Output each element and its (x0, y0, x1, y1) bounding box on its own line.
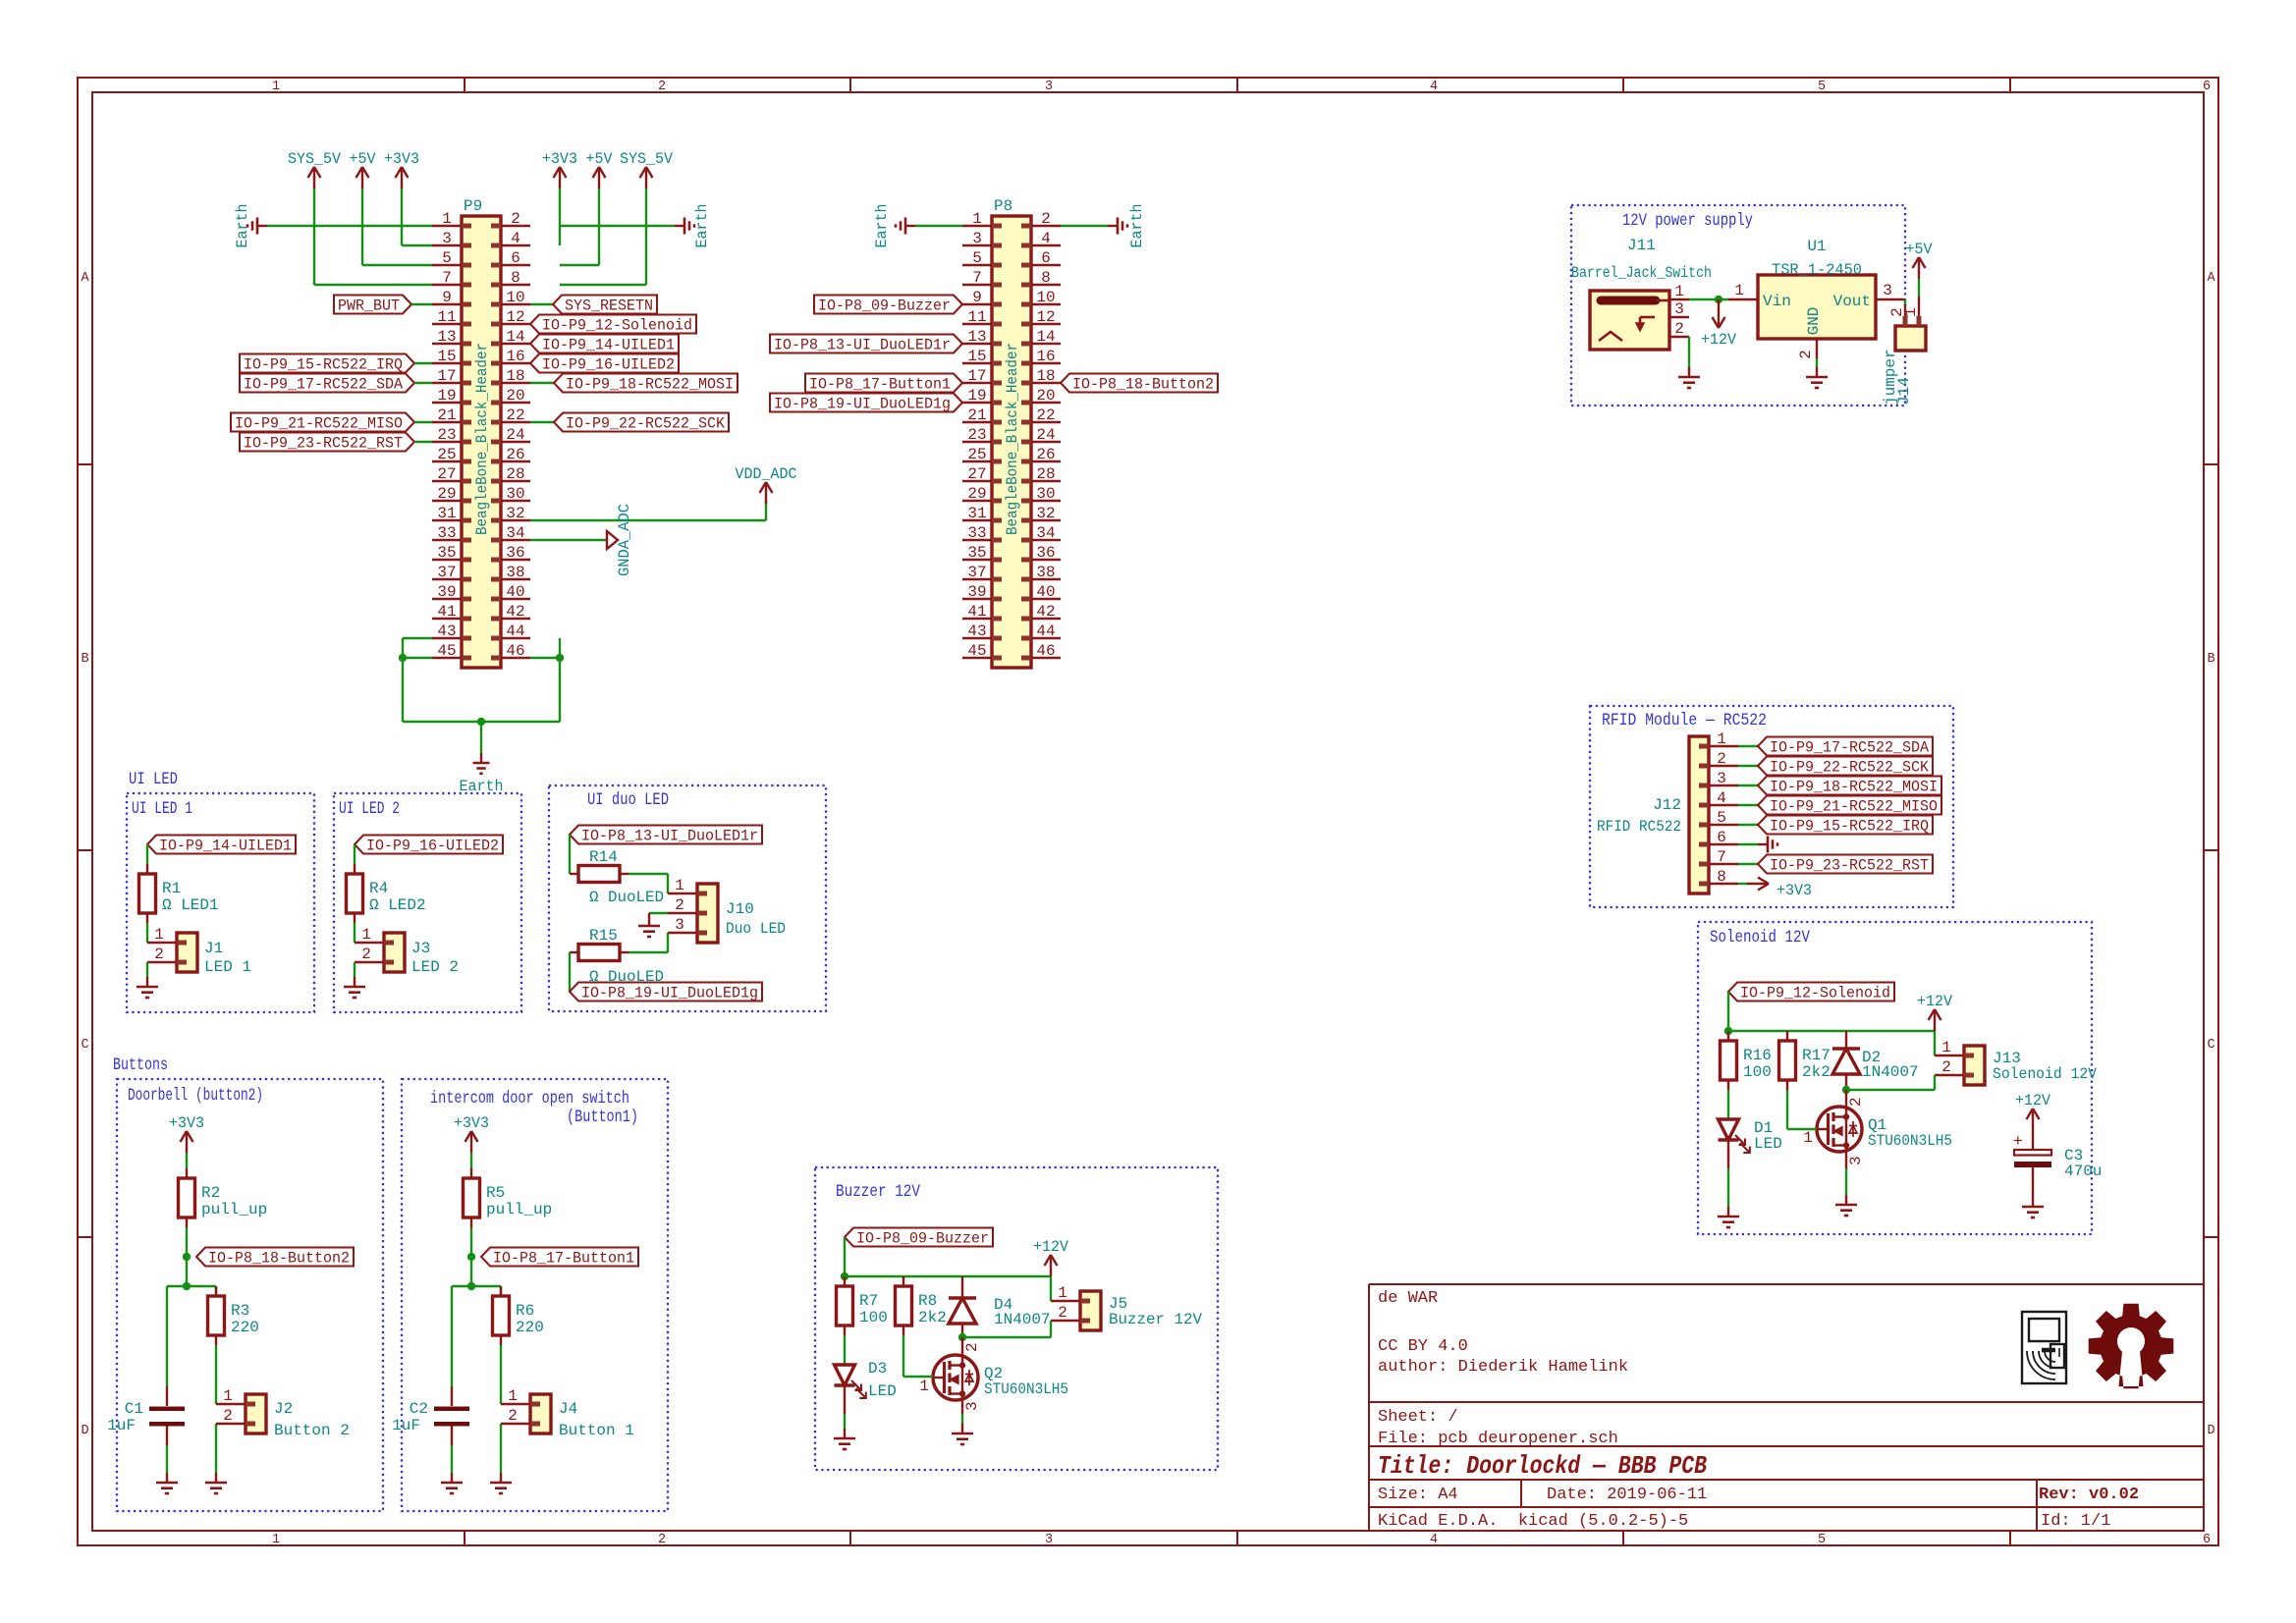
U1 pin 2 GND (1816, 339, 1818, 358)
P8 pin 4 (1031, 244, 1061, 246)
P9 pin 21 (432, 421, 462, 423)
logo door with RFID waves (2022, 1312, 2066, 1383)
P9 pin 33 (432, 539, 462, 541)
svg-text:R15: R15 (589, 927, 618, 945)
power Earth P9 pin1 (257, 225, 267, 227)
wire (915, 225, 962, 227)
wire (645, 189, 647, 285)
svg-text:1uF: 1uF (392, 1417, 420, 1434)
P8 pin 26 (1031, 460, 1061, 462)
resistor R16 (1727, 1031, 1729, 1041)
svg-text:SYS_5V: SYS_5V (620, 150, 674, 168)
svg-text:38: 38 (506, 564, 524, 581)
wire (530, 382, 554, 384)
junction (467, 1282, 475, 1290)
svg-text:VDD_ADC: VDD_ADC (736, 465, 797, 483)
wire Q2 gate (903, 1376, 933, 1378)
svg-text:3: 3 (442, 230, 452, 247)
P9 pin 2 (501, 225, 530, 227)
svg-text:1: 1 (919, 1378, 929, 1395)
wire (1050, 1321, 1052, 1337)
svg-text:24: 24 (506, 426, 524, 444)
diode D3 LED (835, 1365, 855, 1385)
P9 pin 12 (501, 323, 530, 325)
svg-text:C: C (2207, 1038, 2214, 1053)
svg-text:D3: D3 (868, 1360, 887, 1378)
power +3V3 left (401, 167, 403, 189)
wire (649, 912, 668, 914)
svg-text:R7: R7 (859, 1292, 878, 1310)
svg-text:2: 2 (361, 946, 371, 963)
svg-text:7: 7 (1717, 848, 1726, 866)
ground (1845, 1195, 1847, 1205)
P8 pin 43 (962, 637, 992, 639)
svg-text:1: 1 (1717, 730, 1726, 748)
svg-text:37: 37 (967, 564, 986, 581)
wire (146, 844, 148, 864)
ground (844, 1429, 846, 1438)
section box RFID Module - RC522 (1590, 706, 1953, 907)
J12 pin 3 (1709, 784, 1738, 786)
svg-text:U1: U1 (1807, 238, 1826, 255)
svg-text:30: 30 (506, 485, 524, 503)
svg-text:39: 39 (437, 583, 456, 601)
resistor R15 (570, 951, 578, 953)
wire (500, 1424, 502, 1473)
svg-text:3: 3 (1883, 282, 1892, 299)
P9 pin 15 (432, 362, 462, 364)
svg-text:23: 23 (967, 426, 986, 444)
svg-text:+12V: +12V (1701, 331, 1737, 349)
svg-text:1uF: 1uF (107, 1417, 136, 1434)
connector J1 LED 1 (177, 933, 197, 972)
P9 pin 7 (432, 284, 462, 286)
wire (1050, 1276, 1052, 1301)
svg-text:220: 220 (231, 1319, 259, 1336)
svg-text:1: 1 (1941, 1039, 1951, 1056)
wire GNDA_ADC (530, 539, 607, 541)
svg-text:Buzzer 12V: Buzzer 12V (1109, 1311, 1202, 1328)
svg-text:PWR_BUT: PWR_BUT (338, 298, 400, 315)
power VDD_ADC (765, 482, 767, 504)
svg-text:14: 14 (1036, 328, 1055, 346)
P9 pin 44 (501, 637, 530, 639)
svg-text:2: 2 (1941, 1058, 1951, 1076)
svg-text:File: pcb deuropener.sch: File: pcb deuropener.sch (1378, 1430, 1618, 1448)
svg-text:IO-P8_09-Buzzer: IO-P8_09-Buzzer (818, 298, 951, 315)
junction (1724, 1027, 1732, 1035)
svg-text:IO-P9_16-UILED2: IO-P9_16-UILED2 (542, 356, 675, 374)
wire (1738, 784, 1758, 786)
label IO-P9_22-RC522_SCK (554, 413, 729, 432)
label IO-P9_16-UILED2 (530, 354, 679, 373)
svg-text:A: A (2207, 271, 2215, 286)
svg-text:5: 5 (972, 249, 982, 267)
svg-text:1: 1 (272, 80, 280, 94)
svg-text:25: 25 (437, 446, 456, 463)
U1 pin 3 Vout (1876, 298, 1905, 300)
resistor R1 (146, 864, 148, 874)
svg-text:26: 26 (1036, 446, 1055, 463)
wire (667, 933, 669, 952)
svg-text:2: 2 (1797, 350, 1815, 359)
label IO-P9_17-RC522_SDA (1758, 737, 1933, 756)
svg-text:IO-P9_17-RC522_SDA: IO-P9_17-RC522_SDA (1770, 739, 1930, 757)
svg-text:220: 220 (516, 1319, 544, 1336)
svg-text:2: 2 (658, 80, 666, 94)
svg-text:23: 23 (437, 426, 456, 444)
P9 pin 27 (432, 480, 462, 482)
svg-text:3: 3 (972, 230, 982, 247)
svg-text:26: 26 (506, 446, 524, 463)
svg-text:+12V: +12V (2015, 1092, 2051, 1109)
label PWR_BUT (334, 296, 411, 314)
P9 pin 30 (501, 500, 530, 502)
svg-text:IO-P8_17-Button1: IO-P8_17-Button1 (493, 1250, 634, 1268)
wire (1934, 1031, 1936, 1055)
ground (146, 977, 148, 987)
svg-text:2k2: 2k2 (918, 1309, 947, 1326)
wire (1728, 1030, 1935, 1032)
connector J13 Solenoid 12V (1964, 1046, 1985, 1085)
wire (1738, 843, 1758, 845)
wire (215, 1345, 217, 1404)
svg-text:Solenoid 12V: Solenoid 12V (1993, 1065, 2097, 1083)
junction (958, 1333, 966, 1341)
svg-text:LED: LED (1754, 1135, 1782, 1153)
wire (166, 1286, 168, 1386)
connector J12 RFID RC522 (1689, 736, 1709, 893)
connector J3 LED 2 (384, 933, 405, 972)
svg-text:36: 36 (1036, 544, 1055, 562)
svg-text:31: 31 (437, 505, 456, 522)
P9 pin 16 (501, 362, 530, 364)
title block frame (1369, 1283, 2204, 1285)
svg-text:BeagleBone_Black_Header: BeagleBone_Black_Header (473, 343, 491, 535)
P9 pin 32 (501, 519, 530, 521)
P9 pin 29 (432, 500, 462, 502)
svg-text:2: 2 (963, 1342, 981, 1352)
wire (1738, 745, 1758, 747)
ground (354, 977, 355, 987)
ground (648, 913, 650, 926)
P9 pin 43 (432, 637, 462, 639)
wire (452, 1285, 501, 1287)
wire (1904, 299, 1906, 304)
wire (313, 189, 315, 285)
label IO-P9_12-Solenoid (1728, 983, 1894, 1001)
P8 pin 15 (962, 362, 992, 364)
label IO-P9_14-UILED1 (147, 836, 296, 854)
svg-text:P8: P8 (994, 197, 1012, 215)
label IO-P9_23-RC522_RST (1758, 855, 1933, 874)
svg-text:14: 14 (506, 328, 524, 346)
resistor R14 (570, 873, 578, 875)
svg-text:Date: 2019-06-11: Date: 2019-06-11 (1547, 1486, 1707, 1504)
svg-text:45: 45 (967, 642, 986, 660)
svg-text:33: 33 (967, 524, 986, 542)
P8 pin 7 (962, 284, 992, 286)
svg-text:SYS_RESETN: SYS_RESETN (565, 298, 653, 315)
P8 pin 34 (1031, 539, 1061, 541)
svg-text:1: 1 (1803, 1129, 1813, 1147)
transistor Q2 STU60N3LH5 (933, 1355, 978, 1400)
svg-text:Vout: Vout (1833, 293, 1871, 310)
J12 pin 2 (1709, 765, 1738, 767)
P8 pin 30 (1031, 500, 1061, 502)
label IO-P9_14-UILED1 (530, 335, 679, 353)
svg-text:+5V: +5V (586, 150, 614, 168)
svg-text:15: 15 (437, 348, 456, 365)
svg-text:IO-P8_19-UI_DuoLED1g: IO-P8_19-UI_DuoLED1g (774, 396, 951, 413)
resistor R17 (1786, 1031, 1788, 1041)
connector J4 Button 1 (530, 1394, 551, 1434)
svg-text:4: 4 (1430, 1533, 1438, 1547)
label IO-P9_18-RC522_MOSI (554, 374, 738, 393)
P9 pin 42 (501, 618, 530, 620)
svg-text:RFID RC522: RFID RC522 (1597, 818, 1681, 836)
svg-text:2: 2 (1674, 320, 1684, 338)
resistor R3 220 (215, 1286, 217, 1296)
wire (215, 1424, 217, 1473)
P9 pin 28 (501, 480, 530, 482)
P8 pin 20 (1031, 402, 1061, 404)
svg-text:LED 1: LED 1 (204, 958, 251, 976)
label IO-P8_17-Button1 (805, 374, 962, 393)
P9 pin 10 (501, 303, 530, 305)
wire (1845, 1088, 1847, 1090)
ground (500, 1473, 502, 1483)
svg-text:IO-P9_17-RC522_SDA: IO-P9_17-RC522_SDA (244, 376, 404, 394)
svg-text:IO-P9_12-Solenoid: IO-P9_12-Solenoid (1740, 985, 1890, 1002)
wire (1738, 863, 1758, 865)
svg-text:IO-P9_14-UILED1: IO-P9_14-UILED1 (159, 838, 292, 855)
wire (598, 189, 600, 265)
P9 pin 22 (501, 421, 530, 423)
svg-text:29: 29 (437, 485, 456, 503)
section box LED 1 (127, 793, 314, 1012)
svg-text:UI LED: UI LED (129, 770, 178, 789)
svg-text:2: 2 (658, 1533, 666, 1547)
svg-text:4: 4 (1041, 230, 1051, 247)
svg-text:IO-P9_22-RC522_SCK: IO-P9_22-RC522_SCK (1770, 759, 1930, 777)
svg-text:C1: C1 (125, 1400, 143, 1418)
svg-text:IO-P9_14-UILED1: IO-P9_14-UILED1 (542, 337, 675, 354)
svg-text:19: 19 (437, 387, 456, 405)
wire (500, 1345, 502, 1404)
wire (354, 844, 355, 864)
svg-text:33: 33 (437, 524, 456, 542)
P8 pin 27 (962, 480, 992, 482)
power +12V (1934, 1009, 1936, 1031)
resistor R2 pull_up (186, 1168, 188, 1178)
svg-text:6: 6 (2203, 80, 2211, 94)
svg-text:6: 6 (1717, 829, 1726, 846)
wire (480, 722, 482, 753)
power Earth P8 pin1 (905, 225, 915, 227)
svg-text:J11: J11 (1627, 237, 1656, 254)
svg-text:R3: R3 (231, 1302, 249, 1320)
P8 pin 41 (962, 618, 992, 620)
P8 pin 9 (962, 303, 992, 305)
wire (451, 1445, 453, 1473)
label IO-P9_12-Solenoid (530, 315, 696, 334)
svg-text:16: 16 (506, 348, 524, 365)
svg-text:12: 12 (1036, 308, 1055, 326)
wire (414, 362, 432, 364)
svg-text:12: 12 (506, 308, 524, 326)
svg-text:44: 44 (1036, 622, 1055, 640)
svg-text:Sheet: /: Sheet: / (1378, 1408, 1458, 1427)
svg-text:+3V3: +3V3 (1777, 882, 1812, 899)
svg-text:J10: J10 (726, 900, 754, 918)
P9 pin 1 (432, 225, 462, 227)
section box 12V power supply (1571, 205, 1905, 406)
label IO-P9_16-UILED2 (355, 836, 503, 854)
power Earth bottom (480, 753, 482, 763)
label IO-P9_18-RC522_MOSI (1758, 777, 1941, 795)
svg-text:27: 27 (967, 465, 986, 483)
transistor Q1 STU60N3LH5 (1817, 1107, 1862, 1152)
resistor R5 pull_up (470, 1168, 472, 1178)
svg-text:D: D (81, 1424, 88, 1438)
wire R7 to D3 (844, 1335, 846, 1365)
svg-text:R14: R14 (589, 848, 618, 866)
J12 pin 4 (1709, 804, 1738, 806)
diode D2 1N4007 (1845, 1031, 1847, 1049)
junction (1715, 296, 1722, 303)
svg-text:3: 3 (1674, 300, 1684, 318)
svg-text:IO-P8_18-Button2: IO-P8_18-Button2 (208, 1250, 350, 1268)
svg-text:+3V3: +3V3 (169, 1114, 204, 1132)
svg-text:1: 1 (972, 210, 982, 228)
svg-text:SYS_5V: SYS_5V (288, 150, 342, 168)
resistor R6 220 (500, 1286, 502, 1296)
svg-text:9: 9 (972, 289, 982, 306)
svg-text:B: B (81, 652, 88, 667)
svg-text:20: 20 (506, 387, 524, 405)
svg-text:LED 2: LED 2 (411, 958, 459, 976)
power +12V down (1718, 299, 1720, 328)
P9 pin 11 (432, 323, 462, 325)
section box intercom door open switch (Button1) (402, 1079, 668, 1511)
power SYS_5V right (645, 167, 647, 189)
svg-text:37: 37 (437, 564, 456, 581)
wire VDD_ADC (530, 519, 766, 521)
wire (470, 1227, 472, 1257)
power +12V (1050, 1255, 1052, 1276)
label IO-P8_17-Button1 (481, 1248, 638, 1267)
svg-text:IO-P9_23-RC522_RST: IO-P9_23-RC522_RST (244, 435, 403, 453)
svg-text:28: 28 (506, 465, 524, 483)
label IO-P9_15-RC522_IRQ (240, 354, 414, 373)
svg-text:16: 16 (1036, 348, 1055, 365)
svg-text:IO-P9_15-RC522_IRQ: IO-P9_15-RC522_IRQ (244, 356, 403, 374)
svg-text:Size: A4: Size: A4 (1378, 1486, 1458, 1504)
svg-text:12V power supply: 12V power supply (1622, 211, 1753, 231)
P9 pin 4 (501, 244, 530, 246)
svg-text:3: 3 (963, 1401, 981, 1411)
svg-text:2: 2 (1041, 210, 1051, 228)
svg-text:Ω DuoLED: Ω DuoLED (589, 889, 664, 906)
svg-text:43: 43 (437, 622, 456, 640)
svg-text:J2: J2 (274, 1400, 293, 1418)
svg-text:+12V: +12V (1033, 1238, 1069, 1256)
wire (186, 1257, 188, 1286)
svg-text:Ω LED2: Ω LED2 (369, 896, 426, 914)
svg-text:8: 8 (1717, 868, 1726, 886)
wire P9 pins 43,45 to earth (403, 637, 432, 639)
power +5V right (598, 167, 600, 189)
P8 pin 25 (962, 460, 992, 462)
P8 pin 39 (962, 598, 992, 600)
P8 pin 17 (962, 382, 992, 384)
wire (844, 1414, 846, 1429)
svg-text:18: 18 (506, 367, 524, 385)
svg-text:R17: R17 (1802, 1047, 1831, 1064)
svg-text:C: C (81, 1038, 88, 1053)
P9 pin 26 (501, 460, 530, 462)
wire (470, 1257, 472, 1286)
svg-text:10: 10 (1036, 289, 1055, 306)
svg-text:+5V: +5V (350, 150, 377, 168)
P8 pin 45 (962, 657, 992, 659)
label IO-P8_09-Buzzer (845, 1228, 993, 1247)
P9 pin 23 (432, 441, 462, 443)
svg-text:pull_up: pull_up (486, 1201, 552, 1218)
svg-text:IO-P9_15-RC522_IRQ: IO-P9_15-RC522_IRQ (1770, 818, 1929, 836)
label IO-P9_15-RC522_IRQ (1758, 816, 1933, 835)
svg-text:31: 31 (967, 505, 986, 522)
svg-text:1: 1 (361, 926, 371, 944)
label IO-P8_09-Buzzer (814, 296, 962, 314)
power +5V (1918, 257, 1920, 279)
svg-text:2: 2 (1058, 1304, 1067, 1322)
svg-text:19: 19 (967, 387, 986, 405)
capacitor C1 1uF (166, 1386, 168, 1406)
wire (1738, 765, 1758, 767)
svg-text:Title: Doorlockd — BBB PCB: Title: Doorlockd — BBB PCB (1378, 1451, 1707, 1481)
svg-text:IO-P8_18-Button2: IO-P8_18-Button2 (1072, 376, 1214, 394)
P8 pin 40 (1031, 598, 1061, 600)
svg-text:13: 13 (967, 328, 986, 346)
svg-text:Earth: Earth (234, 204, 251, 248)
resistor R8 2k2 (902, 1276, 904, 1286)
P9 pin 17 (432, 382, 462, 384)
P9 pin 40 (501, 598, 530, 600)
svg-text:34: 34 (506, 524, 524, 542)
svg-text:J3: J3 (411, 940, 430, 957)
svg-text:IO-P8_17-Button1: IO-P8_17-Button1 (809, 376, 951, 394)
svg-text:TSR_1-2450: TSR_1-2450 (1772, 261, 1862, 279)
P9 pin 41 (432, 618, 462, 620)
svg-text:17: 17 (437, 367, 456, 385)
wire (569, 952, 571, 992)
P8 pin 46 (1031, 657, 1061, 659)
svg-text:45: 45 (437, 642, 456, 660)
svg-text:22: 22 (506, 406, 524, 424)
svg-text:STU60N3LH5: STU60N3LH5 (1868, 1132, 1952, 1150)
label IO-P8_18-Button2 (1061, 374, 1218, 393)
svg-text:IO-P9_18-RC522_MOSI: IO-P9_18-RC522_MOSI (1770, 779, 1938, 796)
svg-text:42: 42 (506, 603, 524, 621)
wire (166, 1445, 168, 1473)
P8 pin 29 (962, 500, 992, 502)
svg-text:author: Diederik Hamelink: author: Diederik Hamelink (1378, 1358, 1628, 1377)
svg-text:20: 20 (1036, 387, 1055, 405)
label IO-P9_22-RC522_SCK (1758, 757, 1933, 776)
svg-text:5: 5 (1818, 80, 1826, 94)
